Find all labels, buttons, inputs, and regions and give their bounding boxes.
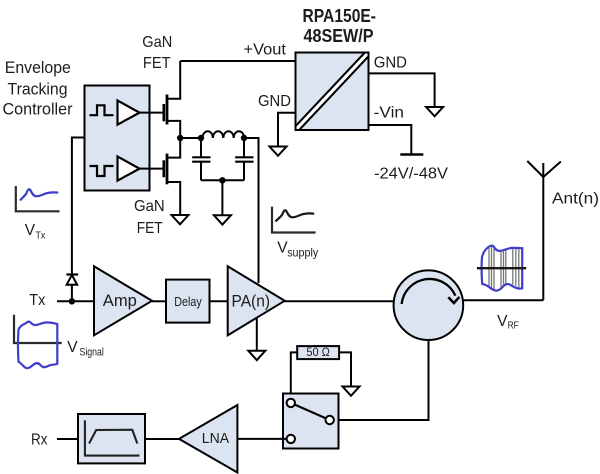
switch SW1 box bbox=[283, 394, 339, 449]
transistor Q2 GaN FET (bottom) bbox=[164, 138, 180, 215]
amplifier Amp bbox=[94, 266, 152, 335]
capacitor C1 bbox=[192, 138, 210, 180]
switch lever bbox=[291, 403, 330, 420]
ground (LC filter) bbox=[214, 215, 231, 224]
buffer amp A1 (top, inside controller) bbox=[118, 101, 140, 125]
icon V_Tx waveform bbox=[16, 186, 60, 211]
capacitor C2 bbox=[235, 138, 253, 180]
wire capacitor bottom rail bbox=[201, 179, 244, 181]
resistor 50 ohm bbox=[297, 346, 339, 359]
wire A1 output to Q1 gate bbox=[140, 112, 164, 114]
circulator bbox=[394, 270, 464, 340]
svg-text:RPA150E-: RPA150E- bbox=[303, 6, 377, 26]
icon V_RF modulated burst bbox=[477, 246, 526, 291]
amplifier PA(n) bbox=[228, 266, 285, 335]
svg-text:V: V bbox=[67, 339, 78, 356]
terminal bar -24V bbox=[400, 153, 423, 155]
wire switch-node to inductor bbox=[180, 137, 201, 139]
wire +Vout (Q1 drain to converter) bbox=[180, 60, 295, 62]
ground (50 ohm) bbox=[343, 387, 360, 396]
label GaN FET (top) bbox=[142, 34, 172, 72]
wire Tx input bbox=[57, 300, 94, 302]
icon V_Signal waveform bbox=[14, 315, 62, 368]
negative pulse symbol inside controller bbox=[90, 166, 114, 176]
svg-text:Amp: Amp bbox=[103, 292, 137, 310]
node L1 left bbox=[198, 135, 204, 141]
svg-text:V: V bbox=[25, 222, 36, 239]
wire PA to circulator bbox=[285, 300, 394, 302]
svg-text:RF: RF bbox=[508, 321, 519, 332]
svg-text:+Vout: +Vout bbox=[244, 42, 287, 59]
wire LNA to switch bbox=[237, 438, 287, 440]
wire 50ohm left to switch pole bbox=[291, 352, 297, 399]
svg-text:V: V bbox=[497, 313, 508, 330]
antenna Ant(n) bbox=[527, 161, 561, 300]
wire PA ground bbox=[256, 318, 258, 351]
delay block bbox=[166, 280, 210, 323]
wire Rx to filter bbox=[57, 438, 78, 440]
svg-text:Tx: Tx bbox=[29, 292, 45, 309]
title RPA150E-48SEW/P bbox=[303, 6, 377, 46]
wire Amp to Delay bbox=[152, 300, 166, 302]
wire converter right GND bbox=[369, 73, 435, 107]
buffer amp A2 (bottom, inside controller) bbox=[118, 157, 140, 181]
label V_RF bbox=[497, 313, 519, 332]
svg-text:GND: GND bbox=[258, 93, 291, 110]
switch throw (mid-right) bbox=[326, 416, 334, 424]
switch pole (bottom-left) bbox=[287, 435, 295, 443]
svg-text:supply: supply bbox=[287, 246, 318, 260]
wire L1 right to supply drop bbox=[244, 138, 259, 283]
svg-text:FET: FET bbox=[143, 55, 171, 72]
label V_supply bbox=[277, 239, 318, 259]
icon V_supply waveform bbox=[272, 207, 316, 233]
svg-text:Ant(n): Ant(n) bbox=[552, 191, 599, 208]
ground (converter left) bbox=[270, 147, 287, 156]
DC-DC converter U1 bbox=[294, 51, 370, 131]
label V_Tx bbox=[25, 222, 46, 242]
svg-text:FET: FET bbox=[137, 220, 163, 237]
ground (PA) bbox=[248, 351, 265, 360]
svg-text:LNA: LNA bbox=[202, 430, 229, 447]
inductor L1 bbox=[203, 131, 245, 138]
diode D1 bbox=[66, 275, 78, 285]
label Envelope Tracking Controller bbox=[3, 58, 73, 119]
svg-text:Tracking: Tracking bbox=[8, 79, 68, 98]
ground (Q2 source) bbox=[172, 215, 189, 224]
wire rail to ground bbox=[221, 180, 223, 215]
svg-text:48SEW/P: 48SEW/P bbox=[304, 26, 374, 46]
node Tx junction bbox=[69, 298, 75, 304]
wire circulator to switch bbox=[334, 340, 429, 420]
positive pulse symbol inside controller bbox=[90, 105, 114, 115]
node L1 right bbox=[241, 135, 247, 141]
svg-text:50 Ω: 50 Ω bbox=[306, 347, 330, 359]
bandpass filter block bbox=[78, 414, 145, 463]
svg-text:GaN: GaN bbox=[142, 34, 172, 51]
svg-text:Controller: Controller bbox=[3, 100, 73, 119]
svg-text:GaN: GaN bbox=[134, 198, 165, 215]
node rail center bbox=[219, 177, 225, 183]
amplifier LNA bbox=[179, 405, 237, 473]
switch pole (top-left) bbox=[287, 399, 295, 407]
svg-text:Tx: Tx bbox=[36, 231, 46, 242]
wire -Vin to supply terminal bbox=[369, 125, 412, 154]
label V_Signal bbox=[67, 339, 104, 359]
svg-text:Signal: Signal bbox=[80, 347, 104, 359]
wire Delay to PA bbox=[210, 300, 228, 302]
svg-text:-24V/-48V: -24V/-48V bbox=[374, 166, 448, 183]
wire converter left GND bbox=[278, 113, 296, 147]
wire 50ohm right to ground bbox=[339, 352, 351, 386]
wire controller feedback (to Tx node) bbox=[72, 138, 85, 302]
transistor Q1 GaN FET (top) bbox=[164, 61, 180, 138]
svg-text:Delay: Delay bbox=[174, 294, 202, 309]
svg-text:-Vin: -Vin bbox=[374, 105, 404, 122]
svg-text:GND: GND bbox=[374, 55, 407, 72]
envelope tracking controller box U2 bbox=[85, 86, 150, 191]
wire filter to LNA bbox=[145, 438, 179, 440]
node switch-node (FET midpoint) bbox=[177, 135, 183, 141]
label GaN FET (bottom) bbox=[134, 198, 165, 237]
svg-text:Envelope: Envelope bbox=[5, 58, 71, 77]
wire A2 output to Q2 gate bbox=[140, 168, 164, 170]
svg-text:PA(n): PA(n) bbox=[232, 293, 271, 311]
ground (converter right) bbox=[426, 107, 443, 116]
wire circulator to antenna bbox=[463, 299, 543, 301]
svg-text:Rx: Rx bbox=[31, 432, 48, 449]
